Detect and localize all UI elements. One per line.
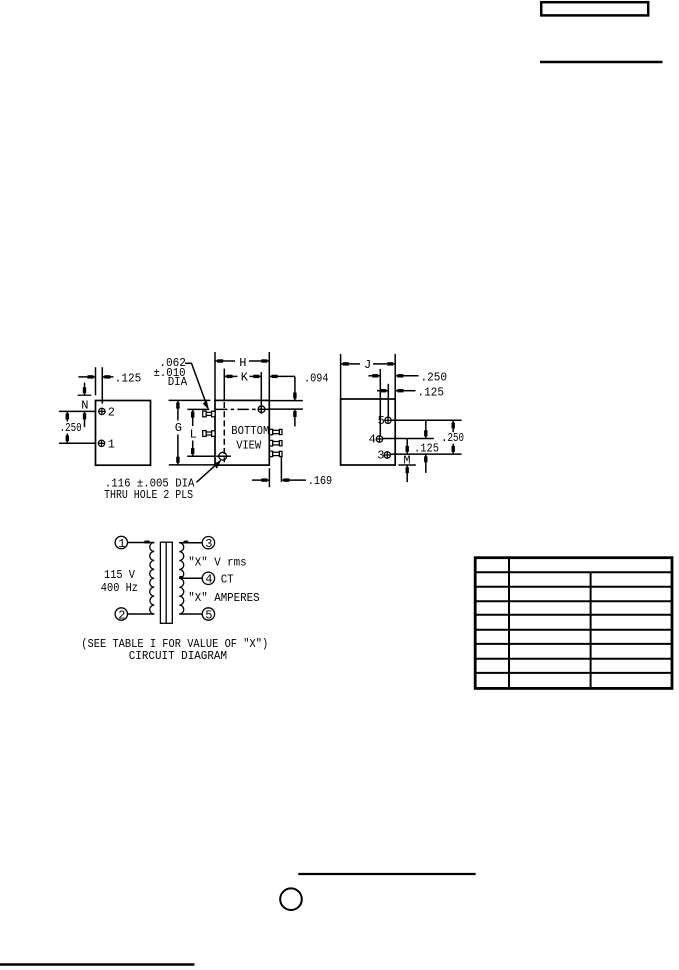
svg-text:.169: .169 bbox=[308, 474, 333, 488]
svg-text:3: 3 bbox=[205, 537, 212, 551]
svg-text:K: K bbox=[241, 371, 249, 385]
svg-text:5: 5 bbox=[378, 414, 385, 428]
svg-text:"X" V rms: "X" V rms bbox=[188, 555, 246, 569]
svg-text:THRU HOLE 2 PLS: THRU HOLE 2 PLS bbox=[104, 488, 193, 502]
svg-text:1: 1 bbox=[108, 438, 115, 452]
svg-text:H: H bbox=[239, 356, 246, 370]
svg-text:.250: .250 bbox=[60, 421, 82, 435]
svg-text:.094: .094 bbox=[304, 372, 329, 386]
svg-text:4: 4 bbox=[205, 573, 212, 587]
svg-text:1: 1 bbox=[118, 537, 125, 551]
svg-text:G: G bbox=[175, 421, 182, 435]
svg-text:CIRCUIT DIAGRAM: CIRCUIT DIAGRAM bbox=[129, 649, 227, 663]
svg-text:L: L bbox=[190, 427, 197, 441]
svg-text:DIA: DIA bbox=[168, 375, 188, 389]
svg-text:CT: CT bbox=[221, 572, 234, 586]
svg-text:250: 250 bbox=[448, 431, 465, 445]
svg-text:VIEW: VIEW bbox=[236, 439, 262, 453]
svg-text:5: 5 bbox=[205, 608, 212, 622]
svg-text:3: 3 bbox=[377, 449, 384, 463]
svg-text:N: N bbox=[81, 399, 88, 413]
svg-text:.250: .250 bbox=[421, 371, 448, 385]
svg-text:400 Hz: 400 Hz bbox=[101, 581, 138, 595]
svg-text:2: 2 bbox=[118, 608, 125, 622]
svg-text:2: 2 bbox=[108, 406, 115, 420]
svg-text:115 V: 115 V bbox=[104, 568, 136, 582]
svg-text:M: M bbox=[403, 454, 410, 468]
svg-text:.125: .125 bbox=[414, 441, 439, 455]
svg-text:4: 4 bbox=[369, 433, 376, 447]
svg-text:BOTTOM: BOTTOM bbox=[231, 424, 269, 438]
svg-text:.125: .125 bbox=[115, 371, 142, 385]
svg-text:.125: .125 bbox=[418, 386, 445, 400]
svg-text:J: J bbox=[364, 358, 371, 372]
svg-text:"X" AMPERES: "X" AMPERES bbox=[188, 591, 259, 605]
